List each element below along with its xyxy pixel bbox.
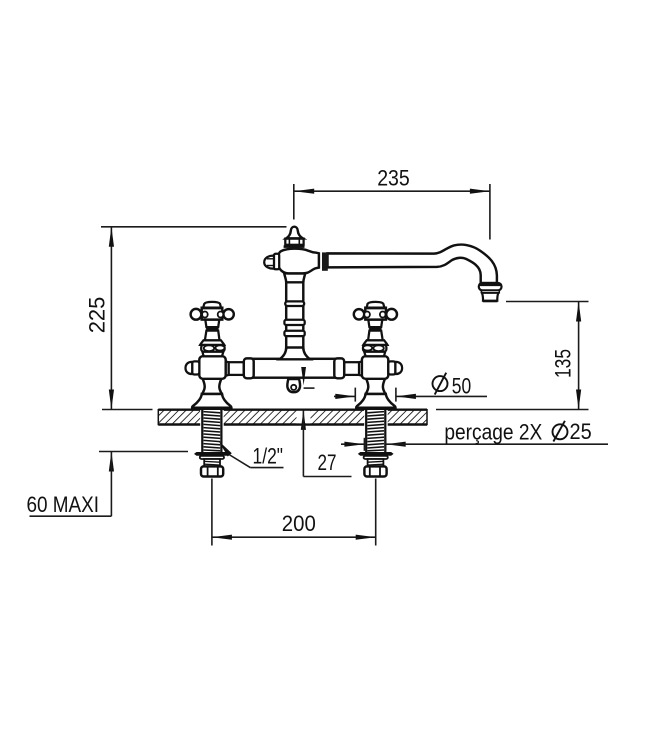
shank outer tube (201, 410, 203, 452)
right thin pipe (344, 362, 359, 375)
spout pipe (328, 245, 497, 284)
valve base bell (192, 394, 231, 408)
plate clearance center arrow (297, 411, 311, 423)
valve base plate (192, 407, 232, 410)
svg-text:225: 225 (85, 297, 110, 334)
column collar lower (284, 331, 304, 336)
pendant under bar (287, 379, 300, 392)
column head (278, 249, 319, 274)
svg-text:perçage 2X: perçage 2X (444, 419, 542, 444)
left cone (221, 360, 228, 377)
svg-text:60 MAXI: 60 MAXI (27, 492, 100, 517)
handle upper stem (205, 320, 219, 328)
dimension percage 2X diameter 25 (341, 419, 608, 451)
handle hub (202, 308, 223, 320)
valve side cap flange (192, 361, 199, 374)
right collar (334, 358, 344, 378)
spout nozzle lip (483, 300, 498, 302)
head cap dome (264, 256, 274, 269)
washer ring (200, 456, 224, 459)
shank threads (204, 412, 221, 451)
spout outlet collar (479, 283, 502, 290)
spout outlet ring (482, 290, 500, 293)
valve bead ring (201, 345, 224, 352)
right cone (359, 360, 366, 377)
handle cap (203, 302, 221, 308)
svg-text:27: 27 (318, 450, 337, 475)
extension line washer level left (99, 451, 188, 453)
pendant hole (291, 385, 296, 390)
column collar upper (284, 320, 304, 325)
right valve assembly (mirrored) (354, 302, 402, 477)
valve body (199, 356, 225, 379)
svg-text:50: 50 (452, 374, 471, 399)
left collar (244, 358, 254, 378)
svg-text:135: 135 (550, 349, 575, 378)
handle ball right (223, 309, 233, 319)
column bell at bar (280, 348, 310, 360)
valve neck (202, 352, 223, 357)
finial black band (284, 245, 305, 248)
column neck under head (284, 273, 305, 282)
spout collar ring at head (322, 252, 328, 270)
svg-text:235: 235 (377, 166, 410, 191)
column bead ring (285, 301, 304, 306)
spout nozzle (482, 293, 499, 301)
svg-text:1/2": 1/2" (253, 444, 284, 469)
central column (286, 281, 303, 350)
handle dark band (206, 327, 218, 331)
head cap flange (left) (274, 254, 279, 269)
dimension 200 (212, 479, 376, 546)
finial collar (285, 239, 303, 245)
hex nut (201, 466, 223, 476)
dimension 235 (294, 166, 490, 240)
handle stem flare (200, 340, 224, 345)
washer flange (194, 452, 230, 456)
svg-text:25: 25 (570, 419, 592, 444)
bridge bar (253, 359, 335, 378)
valve side cap dome (185, 362, 192, 374)
dimension 27 (301, 367, 352, 477)
countertop plate hatched (158, 409, 427, 425)
handle ball left (191, 309, 202, 320)
left thin pipe (229, 362, 244, 375)
svg-text:200: 200 (282, 511, 316, 536)
valve waist (202, 379, 222, 394)
dimension diameter 50 (334, 373, 487, 402)
label 1/2 inch (219, 441, 284, 469)
plate clearance right shank (364, 408, 388, 426)
shank stub (204, 459, 220, 466)
finial dome (286, 227, 303, 239)
dimension: top extension line (101, 226, 287, 228)
handle lower stem (205, 331, 220, 341)
left valve assembly (185, 302, 233, 477)
plate clearance left shank (200, 408, 224, 426)
extension line plate top left (102, 409, 153, 411)
dimension 225 vertical line (110, 227, 112, 410)
dimension 135 (436, 302, 589, 410)
dimension 60 MAXI (27, 452, 115, 518)
